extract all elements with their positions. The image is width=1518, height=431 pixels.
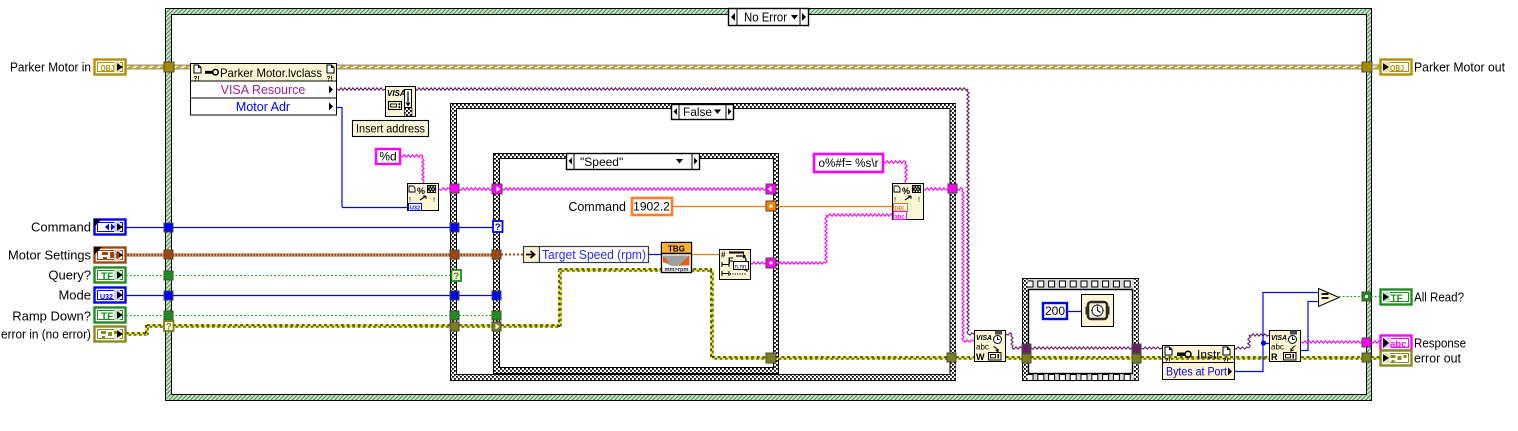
svg-text:Command: Command <box>31 220 91 235</box>
wire Command (blue) <box>126 227 492 229</box>
svg-text:Motor Adr: Motor Adr <box>236 100 290 114</box>
flat sequence structure (film strip) <box>1023 279 1139 381</box>
svg-text:%: % <box>902 186 910 196</box>
wire VISA resource after Write to sequence <box>1006 333 1022 349</box>
VISA Read node <box>1270 331 1301 363</box>
wire error across Instr node <box>1163 357 1234 360</box>
svg-text:!: ! <box>433 197 435 204</box>
property node Instr <box>1163 346 1235 380</box>
format node with U32 input <box>408 184 439 212</box>
tunnel Ramp Down? outer frame <box>164 311 173 320</box>
Wait (ms) icon <box>1082 295 1114 327</box>
wire VISA resource (purple) <box>337 88 974 335</box>
svg-text:n.nn: n.nn <box>735 264 747 270</box>
svg-text:OBJ: OBJ <box>101 64 115 73</box>
terminal error in (cluster) <box>95 327 126 342</box>
terminal Motor Settings (cluster) <box>94 247 126 263</box>
svg-text:?: ? <box>495 222 501 233</box>
wire pink across Speed structure <box>502 188 766 190</box>
svg-text:?: ? <box>166 322 172 333</box>
case selector label "False" <box>672 105 734 120</box>
svg-text:Insert address: Insert address <box>356 122 425 136</box>
wire pink to VISA Write buffer <box>957 188 974 342</box>
tunnel error sequence left <box>1022 354 1031 363</box>
False case structure frame <box>451 104 956 381</box>
wire Motor Settings (brown cluster) <box>126 254 492 257</box>
wire error inside Speed structure <box>501 269 766 360</box>
wire green tunnel to All Read? terminal <box>1371 296 1380 298</box>
tunnel pink False right <box>948 184 957 193</box>
tunnel error outer right <box>1362 353 1371 362</box>
svg-text:Instr: Instr <box>1197 348 1220 362</box>
wire Motor Adr (blue) <box>337 107 407 208</box>
wire Format Into String output (pink) <box>923 188 948 190</box>
VISA Write node <box>975 331 1006 363</box>
svg-text:%d: %d <box>379 150 396 164</box>
svg-text:?!: ?! <box>1223 358 1229 365</box>
wire unbundle to TBG (blue) <box>649 254 661 256</box>
property node Parker Motor.lvclass <box>191 64 337 116</box>
tunnel Ramp Down? on False frame <box>450 311 459 320</box>
unbundle by name Target Speed (rpm) <box>524 247 649 263</box>
wire Ramp Down? (green dotted) <box>126 315 492 317</box>
svg-text:Bytes at Port: Bytes at Port <box>1166 367 1228 379</box>
tunnel Motor Settings outer frame <box>164 250 173 259</box>
svg-text:OBJ: OBJ <box>1390 64 1404 73</box>
svg-text:All Read?: All Read? <box>1414 290 1464 305</box>
tunnel class wire right <box>1362 62 1372 72</box>
svg-text:Response: Response <box>1414 336 1466 351</box>
tunnel error False right <box>947 353 956 362</box>
case selector label "Speed" <box>567 154 700 170</box>
wire format string constant to node top (pink) <box>883 161 907 183</box>
svg-text:abc: abc <box>1271 343 1284 352</box>
svg-text:VISA: VISA <box>387 89 406 98</box>
tunnel Query? outer frame <box>164 271 173 280</box>
svg-text:error out: error out <box>1414 351 1461 366</box>
svg-text:TF: TF <box>101 312 113 323</box>
svg-text:#: # <box>721 251 726 260</box>
svg-text:Motor Settings: Motor Settings <box>8 248 91 263</box>
svg-text:R: R <box>1271 352 1278 362</box>
VISA flush buffer icon <box>386 87 416 117</box>
svg-text:abc: abc <box>1390 339 1406 350</box>
wire error sequence to VISA Read <box>1141 357 1269 360</box>
svg-text:TBG: TBG <box>668 245 685 254</box>
wire %d to format node (pink) <box>400 155 424 183</box>
tunnel pink Response outer frame <box>1362 338 1371 347</box>
svg-text:Mode: Mode <box>58 288 91 303</box>
wire orange tunnel to Format Into String DBL <box>776 206 893 208</box>
svg-text:Parker Motor in: Parker Motor in <box>10 60 91 75</box>
outer case structure "No Error" frame <box>166 9 1372 401</box>
svg-text:o%#f= %s\r: o%#f= %s\r <box>819 158 879 170</box>
property node Instr glyphs and text <box>1165 347 1233 379</box>
wire equality result (green dotted) <box>1339 296 1362 298</box>
svg-text:Query?: Query? <box>48 268 91 283</box>
tunnel error on False frame <box>450 322 459 331</box>
svg-text:U32: U32 <box>100 292 113 301</box>
svg-text:TF: TF <box>1391 294 1403 305</box>
case selector ? of False structure (green) <box>452 270 462 282</box>
tunnel pink on False frame left <box>450 184 459 193</box>
wire Parker Motor class (gold) <box>126 65 1381 70</box>
terminal error out (cluster indicator) <box>1381 351 1412 366</box>
tunnel pink Speed left (arrow in) <box>492 184 502 194</box>
wire fract string output (pink) <box>750 262 766 264</box>
label Insert address <box>353 121 429 137</box>
wire VISA Read return count to equality (blue) <box>1301 301 1319 351</box>
VI icon TBG mm>rpm <box>662 243 692 274</box>
case selector label "No Error" <box>729 9 809 26</box>
svg-text:!: ! <box>409 197 411 204</box>
format into string node (DBL, abc) <box>893 184 924 221</box>
terminal Command (ring) <box>94 219 126 235</box>
wire error inside sequence <box>1031 357 1132 360</box>
wire Query? (green dotted) <box>126 275 452 277</box>
tunnel error sequence right <box>1132 354 1141 363</box>
constant format string o%#f= %s\r (pink) <box>814 154 883 172</box>
wire VISA Read buffer to Response (pink) <box>1301 341 1362 343</box>
wire pink False to Speed <box>459 188 492 190</box>
wire error VISA Read to border <box>1301 357 1362 360</box>
terminal Mode (U32) <box>95 288 126 303</box>
tunnel class wire left <box>164 62 174 72</box>
wire error Speed to False frame <box>776 357 947 360</box>
svg-text:Parker Motor.lvclass: Parker Motor.lvclass <box>220 66 322 80</box>
svg-text:?!: ?! <box>1165 358 1171 365</box>
svg-text:Command: Command <box>568 200 626 214</box>
svg-text:W: W <box>976 352 985 362</box>
tunnel All Read? outer frame <box>1362 292 1371 301</box>
svg-text:U32: U32 <box>410 205 420 211</box>
svg-text:abc: abc <box>895 214 906 220</box>
svg-text:abc: abc <box>976 343 989 352</box>
svg-text:"Speed": "Speed" <box>580 155 623 169</box>
tunnel Motor Settings on False frame <box>450 250 459 259</box>
case selector ? of Speed structure (blue) <box>493 221 503 233</box>
svg-text:200: 200 <box>1045 304 1065 318</box>
junction Bytes at Port wire <box>1261 340 1266 345</box>
svg-text:Parker Motor out: Parker Motor out <box>1414 60 1505 75</box>
svg-text:mm>rpm: mm>rpm <box>665 267 689 273</box>
constant 1902.2 (orange) <box>632 198 672 215</box>
wire error to error out terminal <box>1371 357 1381 360</box>
svg-text:?: ? <box>453 271 459 282</box>
wire format node output (pink) <box>439 188 450 190</box>
wire junction to VISA Read count <box>1263 343 1269 345</box>
tunnel Motor Settings on Speed frame <box>492 250 501 259</box>
wire VISA inside sequence <box>1031 347 1132 349</box>
tunnel error Speed right <box>766 353 776 363</box>
case selector ? of outer structure (error) <box>164 321 174 333</box>
wire error VISA Write to sequence <box>1006 357 1022 360</box>
equality comparison node <box>1319 289 1340 307</box>
wire VISA Instr to VISA Read <box>1234 334 1269 349</box>
number to fractional string node <box>720 250 751 280</box>
wire Motor Settings stub to unbundle (dotted) <box>501 254 523 256</box>
constant 200 (blue) <box>1043 303 1067 319</box>
tunnel pink Speed right (arrow in) <box>766 184 776 194</box>
svg-text:Target Speed (rpm): Target Speed (rpm) <box>542 248 646 262</box>
wire error in (yellow-black) <box>126 325 492 336</box>
svg-text:!: ! <box>894 197 896 204</box>
svg-text:1902.2: 1902.2 <box>633 200 670 214</box>
svg-text:VISA: VISA <box>976 335 992 342</box>
terminal Parker Motor in (OBJ) <box>95 60 126 75</box>
tunnel Command outer frame <box>164 223 173 232</box>
wire Mode (blue) <box>126 295 492 297</box>
terminal Ramp Down? (TF) <box>95 308 126 323</box>
wire VISA sequence to Instr property node <box>1141 347 1162 349</box>
tunnel Mode outer frame <box>164 291 173 300</box>
Speed case structure frame <box>494 154 779 374</box>
tunnel VISA sequence right <box>1132 344 1141 353</box>
wire pink tunnel to Response terminal <box>1371 341 1381 343</box>
wire pink to Format Into String abc input <box>776 214 893 264</box>
svg-text:False: False <box>683 105 712 119</box>
svg-text:TF: TF <box>101 272 113 283</box>
wire error to VISA Write <box>956 357 974 360</box>
svg-text:No Error: No Error <box>744 11 787 25</box>
tunnel pink Speed right lower <box>766 258 776 268</box>
terminal Query? (TF) <box>95 268 126 283</box>
tunnel Command on False frame <box>450 223 459 232</box>
svg-text:%: % <box>417 186 425 196</box>
wire Command constant to tunnel (orange) <box>672 206 766 208</box>
tunnel Mode on False frame <box>450 291 459 300</box>
wire Bytes at Port to equality (blue) <box>1234 292 1319 372</box>
tunnel Ramp Down? on Speed frame <box>492 311 501 320</box>
terminal All Read? (TF indicator) <box>1381 290 1412 305</box>
svg-text:VISA Resource: VISA Resource <box>221 83 306 97</box>
svg-text:Ramp Down?: Ramp Down? <box>12 309 91 324</box>
wire TBG to fract string node (orange) <box>692 254 719 256</box>
svg-text:VISA: VISA <box>1271 335 1287 342</box>
terminal Parker Motor out (OBJ) <box>1381 60 1412 75</box>
svg-text:error in (no error): error in (no error) <box>1 327 91 342</box>
constant %d (pink) <box>376 149 400 164</box>
wire 200 to Wait ms (blue) <box>1067 311 1081 313</box>
tunnel VISA sequence left <box>1022 344 1031 353</box>
tunnel Mode on Speed frame <box>492 291 501 300</box>
tunnel error on Speed frame <box>492 322 501 331</box>
tunnel orange Speed right <box>766 201 776 211</box>
svg-text:!: ! <box>918 197 920 204</box>
terminal Response (string indicator) <box>1381 336 1412 351</box>
